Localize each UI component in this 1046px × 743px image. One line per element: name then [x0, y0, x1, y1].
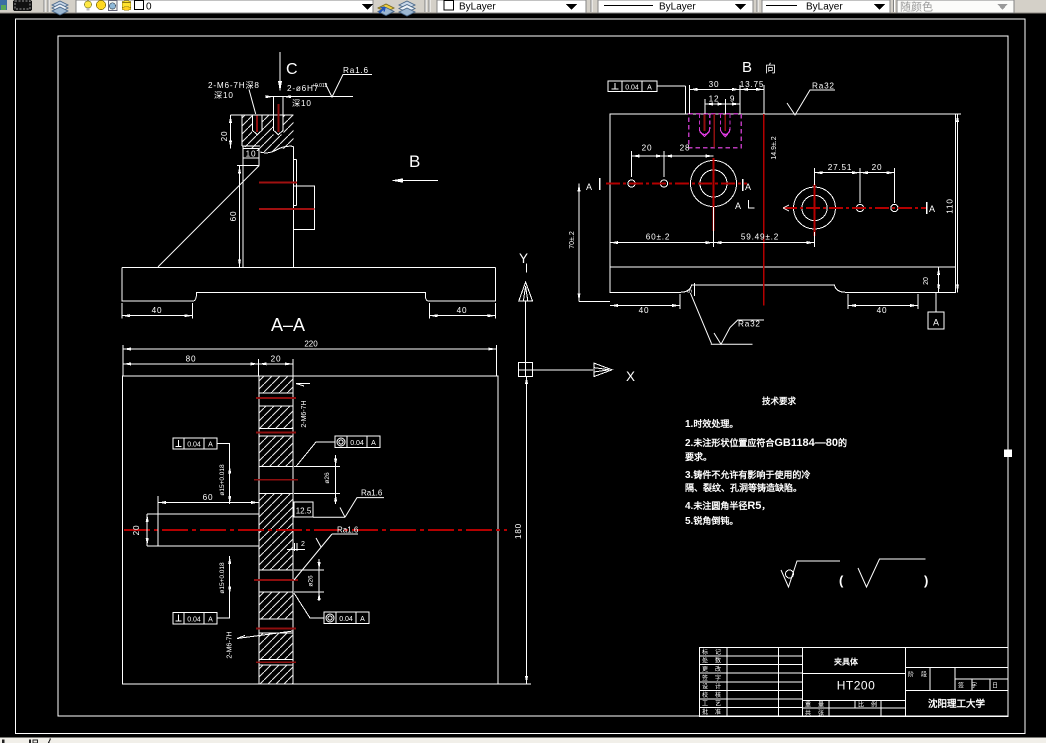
Ra1.6 lower: [294, 534, 358, 580]
outer rectangle: [122, 376, 498, 684]
svg-text:A: A: [933, 318, 939, 328]
svg-text:110: 110: [946, 198, 955, 213]
svg-text:处数: 处数: [702, 657, 728, 665]
svg-text:0.04: 0.04: [187, 442, 201, 449]
svg-text:80: 80: [186, 355, 197, 364]
main red centerline: [124, 529, 507, 531]
right flange: [296, 159, 298, 205]
dim 40 left foot: [121, 303, 123, 319]
tapped hole 2: [273, 97, 275, 131]
svg-text:0.04: 0.04: [350, 440, 364, 447]
Ra32 bottom: [690, 293, 764, 344]
svg-text:0: 0: [146, 2, 152, 13]
svg-text:180: 180: [514, 523, 523, 539]
red side hole lines: [259, 182, 297, 184]
roughness others symbol: [781, 561, 840, 587]
svg-text:9: 9: [730, 95, 735, 104]
long red vertical centerline: [763, 114, 765, 306]
svg-text:(: (: [839, 573, 844, 588]
svg-text:1.时效处理。: 1.时效处理。: [685, 418, 738, 430]
TITLE BLOCK: [700, 647, 1008, 716]
color combo: [437, 0, 586, 13]
dim 180 right: [526, 376, 528, 684]
right cells: [905, 667, 1008, 669]
svg-text:0.04: 0.04: [625, 85, 639, 92]
grip: [424, 0, 426, 12]
magenta slot 2: [720, 114, 730, 137]
dims 30 / 13.75: [690, 85, 764, 114]
svg-text:2-M6-7H: 2-M6-7H: [301, 400, 308, 427]
Ra32 top: [787, 90, 835, 115]
svg-text:3.铸件不允许有影响于使用的冷: 3.铸件不允许有影响于使用的冷: [685, 469, 810, 481]
svg-text:60: 60: [203, 493, 214, 502]
LEFT SECTION VIEW: [122, 52, 496, 335]
NOTES: [685, 396, 928, 588]
svg-text:日: 日: [992, 683, 1005, 690]
svg-text:技术要求: 技术要求: [762, 396, 797, 406]
svg-text:2-M6-7H: 2-M6-7H: [227, 631, 234, 658]
dim 40 right foot: [428, 303, 430, 319]
svg-text:30: 30: [709, 80, 720, 89]
svg-text:Ra32: Ra32: [812, 82, 835, 91]
svg-text:220: 220: [304, 340, 318, 349]
left hole rectangle: [158, 514, 259, 546]
svg-text:40: 40: [152, 306, 163, 315]
inner step line: [610, 266, 955, 268]
dims 27.51 / 20: [815, 168, 895, 203]
svg-text:向: 向: [765, 61, 776, 75]
magenta slot 1: [699, 114, 709, 137]
LOWER LEFT VIEW: [122, 340, 531, 685]
dim 110 right: [957, 114, 959, 292]
COMMAND LINE STRIP: [0, 738, 1046, 743]
svg-text:Ra1.6: Ra1.6: [343, 66, 369, 75]
Ra1.6 symbol: [325, 75, 372, 98]
svg-text:深10: 深10: [292, 99, 312, 108]
dim 60: [239, 166, 241, 268]
svg-text:ByLayer: ByLayer: [806, 2, 843, 13]
datum A: [935, 292, 937, 312]
12.5 box: [294, 502, 313, 517]
dim 60 / 59.49 bottom: [610, 207, 815, 247]
svg-text:共张: 共张: [805, 709, 831, 717]
svg-text:A: A: [208, 442, 213, 449]
svg-text:20: 20: [923, 277, 930, 285]
red hole lines in strip: [254, 398, 298, 662]
RIGHT B VIEW: [569, 59, 961, 344]
svg-text:沈阳理工大学: 沈阳理工大学: [928, 698, 986, 710]
svg-text:ByLayer: ByLayer: [659, 2, 696, 13]
svg-text:A: A: [360, 616, 365, 623]
svg-text:隔、裂纹、孔洞等铸造缺陷。: 隔、裂纹、孔洞等铸造缺陷。: [685, 482, 802, 493]
svg-text:A: A: [586, 182, 592, 192]
svg-text:X: X: [626, 369, 635, 384]
red group centerline: [713, 114, 715, 148]
svg-text:40: 40: [457, 306, 468, 315]
svg-text:HT200: HT200: [837, 679, 876, 693]
GD&T frame left lower: [173, 594, 230, 623]
svg-text:ByLayer: ByLayer: [459, 2, 496, 13]
dim 5 notch: [694, 283, 696, 296]
dim 60: [158, 502, 259, 504]
svg-text:重量: 重量: [805, 701, 831, 709]
center cells: [802, 673, 905, 675]
svg-text:60±.2: 60±.2: [646, 233, 670, 242]
left grid rows: [700, 655, 803, 657]
svg-text:40: 40: [639, 306, 650, 315]
hatch strip segments: [259, 376, 293, 683]
svg-text:28: 28: [680, 144, 691, 153]
svg-text:40: 40: [877, 306, 888, 315]
dim 20 right: [938, 267, 940, 292]
layer combo: [76, 0, 373, 13]
svg-text:阶段: 阶段: [908, 671, 934, 679]
lineweight combo: [762, 0, 890, 13]
hole group 2: [794, 187, 836, 229]
linetype combo: [598, 0, 753, 13]
svg-text:10: 10: [246, 150, 257, 159]
GD&T frame right upper: [296, 436, 380, 466]
dim 20 left: [230, 115, 232, 149]
svg-text:0.04: 0.04: [187, 616, 201, 623]
svg-text:13.75: 13.75: [740, 80, 765, 89]
svg-text:工艺: 工艺: [702, 700, 728, 708]
svg-text:20: 20: [271, 355, 282, 364]
svg-text:ø15+0.018: ø15+0.018: [219, 464, 226, 496]
svg-text:B: B: [742, 59, 752, 76]
svg-text:20: 20: [220, 131, 229, 142]
svg-text:): ): [924, 573, 928, 588]
svg-text:ø26: ø26: [324, 472, 331, 484]
svg-text:批准: 批准: [702, 708, 728, 716]
hole group 1: [691, 161, 737, 207]
svg-text:比例: 比例: [858, 701, 884, 709]
magenta dashed pocket: [689, 114, 742, 148]
svg-text:校核: 校核: [702, 691, 728, 699]
strip edges: [259, 376, 293, 684]
dims 40 bottom: [610, 294, 918, 309]
svg-text:标记: 标记: [702, 648, 728, 656]
svg-text:更改: 更改: [702, 665, 728, 673]
grip square on right border: [1004, 450, 1012, 458]
svg-text:4.未注圆角半径R5，: 4.未注圆角半径R5，: [685, 500, 770, 512]
svg-text:Ra1.6: Ra1.6: [337, 526, 359, 535]
svg-text:签字: 签字: [958, 682, 984, 690]
base slab: [122, 267, 496, 301]
svg-text:2: 2: [301, 541, 305, 548]
svg-text:夹具体: 夹具体: [834, 657, 859, 667]
svg-text:A: A: [745, 182, 751, 192]
svg-text:27.51: 27.51: [828, 163, 853, 172]
Ra1.6 upper: [313, 498, 384, 518]
plot style combo (disabled): [897, 0, 1014, 13]
svg-text:A: A: [647, 85, 652, 92]
svg-text:A: A: [929, 204, 935, 214]
dim o15 lower: [229, 556, 231, 595]
dim 20: [146, 514, 148, 546]
dim o15 upper: [229, 465, 231, 504]
svg-text:Ra32: Ra32: [738, 320, 761, 329]
svg-text:C: C: [286, 61, 298, 78]
svg-text:60: 60: [229, 211, 238, 222]
svg-text:深10: 深10: [214, 91, 234, 100]
svg-text:20: 20: [132, 525, 141, 536]
svg-text:B: B: [409, 152, 420, 171]
svg-text:5.锐角倒钝。: 5.锐角倒钝。: [685, 515, 738, 527]
pedestal: [242, 158, 244, 267]
svg-text:要求。: 要求。: [685, 451, 712, 462]
rib diagonal: [158, 166, 259, 267]
svg-text:ø26: ø26: [308, 575, 315, 587]
dim 70 left: [578, 184, 580, 302]
hatched top block: [242, 115, 294, 152]
svg-text:0.04: 0.04: [339, 616, 353, 623]
svg-text:14.9±.2: 14.9±.2: [771, 136, 778, 159]
black viewport button: [13, 0, 32, 11]
dim o26 lower: [318, 559, 320, 601]
svg-text:5: 5: [687, 289, 694, 293]
svg-text:A: A: [371, 440, 376, 447]
svg-text:随颜色: 随颜色: [900, 0, 933, 14]
svg-text:59.49±.2: 59.49±.2: [741, 233, 779, 242]
plate outline: [610, 114, 955, 292]
svg-text:2.未注形状位置应符合GB1184—80的: 2.未注形状位置应符合GB1184—80的: [685, 437, 847, 449]
toolbar grip: [43, 0, 45, 12]
GD&T frame right lower: [294, 593, 369, 624]
dim 2 step: [287, 543, 305, 551]
svg-text:70±.2: 70±.2: [569, 231, 576, 249]
tapped hole 1: [251, 115, 253, 130]
svg-text:A–A: A–A: [271, 315, 305, 335]
svg-text:20: 20: [642, 144, 653, 153]
svg-text:2-M6-7H深8: 2-M6-7H深8: [208, 81, 260, 90]
svg-text:设计: 设计: [702, 682, 728, 690]
GD&T frame left upper: [173, 438, 230, 466]
GD&T frame top: [608, 81, 686, 114]
svg-text:Ra1.6: Ra1.6: [361, 489, 383, 498]
svg-text:12: 12: [709, 95, 720, 104]
UCS ICON: [519, 251, 635, 384]
make layer current icon: [378, 4, 394, 12]
svg-text:A: A: [208, 616, 213, 623]
layers stack icon: [52, 1, 68, 9]
partial left icon: [0, 0, 7, 10]
svg-text:A: A: [735, 201, 741, 211]
red slot centerlines: [704, 115, 706, 132]
dims 20 / 28: [632, 151, 714, 177]
dim 10 box: [243, 148, 259, 150]
dim 220: [123, 345, 497, 376]
layer previous icon: [399, 1, 415, 9]
svg-text:签字: 签字: [702, 674, 728, 682]
dim 80 / 20: [123, 359, 293, 376]
red hole centerlines: [256, 116, 258, 133]
TOOLBAR: [0, 0, 1046, 16]
svg-text:12.5: 12.5: [296, 507, 312, 516]
dim o26 upper: [335, 455, 337, 504]
svg-text:ø15+0.018: ø15+0.018: [219, 562, 226, 594]
svg-text:20: 20: [872, 163, 883, 172]
side boss box: [294, 186, 315, 230]
